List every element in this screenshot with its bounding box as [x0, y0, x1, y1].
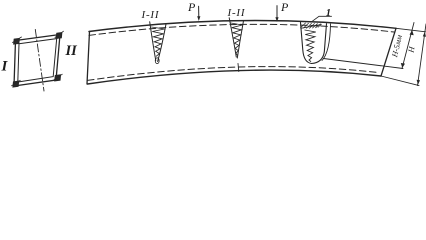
section corner weld TR [55, 31, 64, 38]
wedge slot 2 weld zigzag [231, 23, 243, 55]
svg-text:I: I [1, 59, 9, 75]
beam top edge [89, 21, 396, 32]
beam bottom edge [88, 70, 382, 84]
beam bottom inner dashed line [88, 67, 378, 81]
svg-text:II: II [65, 43, 79, 59]
bottom witness line [381, 76, 419, 86]
dimension line H-5mm [402, 23, 414, 69]
svg-text:P: P [187, 0, 196, 14]
wedge slot 1 sides [150, 22, 156, 61]
section view inner box [18, 39, 57, 82]
section centerline [35, 30, 44, 92]
svg-text:I-II: I-II [227, 7, 246, 19]
beam left end [87, 32, 90, 85]
svg-text:P: P [280, 0, 289, 14]
load P left arrow [198, 6, 200, 17]
svg-text:I-II: I-II [141, 9, 160, 21]
wedge slot 2 sides [229, 18, 236, 57]
wedge slot 1 weld zigzag [152, 27, 165, 56]
section corner weld BL [12, 80, 21, 87]
section view outer box [14, 35, 60, 87]
svg-text:H: H [406, 45, 416, 54]
svg-text:H-5мм: H-5мм [390, 34, 404, 59]
slot with insert: left wall [301, 22, 312, 63]
leader and label 1 [311, 16, 332, 22]
slot depth line [324, 59, 404, 69]
wedge slot 2 centerline tick [237, 64, 240, 72]
wedge slot 1 tip loop [155, 58, 159, 64]
section corner weld TL [13, 37, 22, 44]
beam top inner dashed line [89, 24, 394, 35]
top edge extension [396, 28, 426, 32]
slot insert hatched plate (item 1) [301, 23, 322, 28]
load P right arrow [276, 6, 278, 19]
slot with insert: right wall [312, 24, 327, 64]
svg-text:1: 1 [326, 8, 331, 19]
dimension line H [418, 24, 426, 86]
section corner weld BR [54, 74, 63, 81]
beam right end [381, 28, 396, 76]
slot weld zigzag [305, 30, 316, 62]
slot with insert: inner right line [322, 24, 331, 61]
